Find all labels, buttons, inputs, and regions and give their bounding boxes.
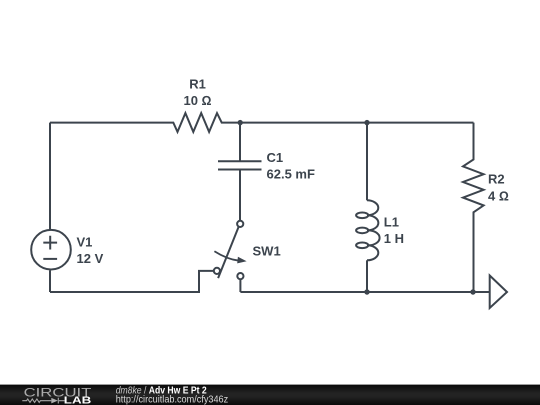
svg-text:V1: V1 bbox=[77, 235, 93, 250]
svg-text:62.5 mF: 62.5 mF bbox=[267, 167, 315, 182]
svg-text:R2: R2 bbox=[488, 172, 505, 187]
svg-text:C1: C1 bbox=[267, 150, 284, 165]
svg-text:SW1: SW1 bbox=[253, 244, 281, 259]
svg-text:12 V: 12 V bbox=[77, 251, 104, 266]
svg-text:LAB: LAB bbox=[64, 396, 91, 405]
svg-text:R1: R1 bbox=[189, 77, 206, 92]
svg-text:10 Ω: 10 Ω bbox=[183, 93, 211, 108]
svg-text:L1: L1 bbox=[384, 214, 399, 229]
svg-text:1 H: 1 H bbox=[384, 231, 404, 246]
svg-text:http://circuitlab.com/cfy346z: http://circuitlab.com/cfy346z bbox=[116, 394, 229, 405]
svg-text:4 Ω: 4 Ω bbox=[488, 189, 509, 204]
